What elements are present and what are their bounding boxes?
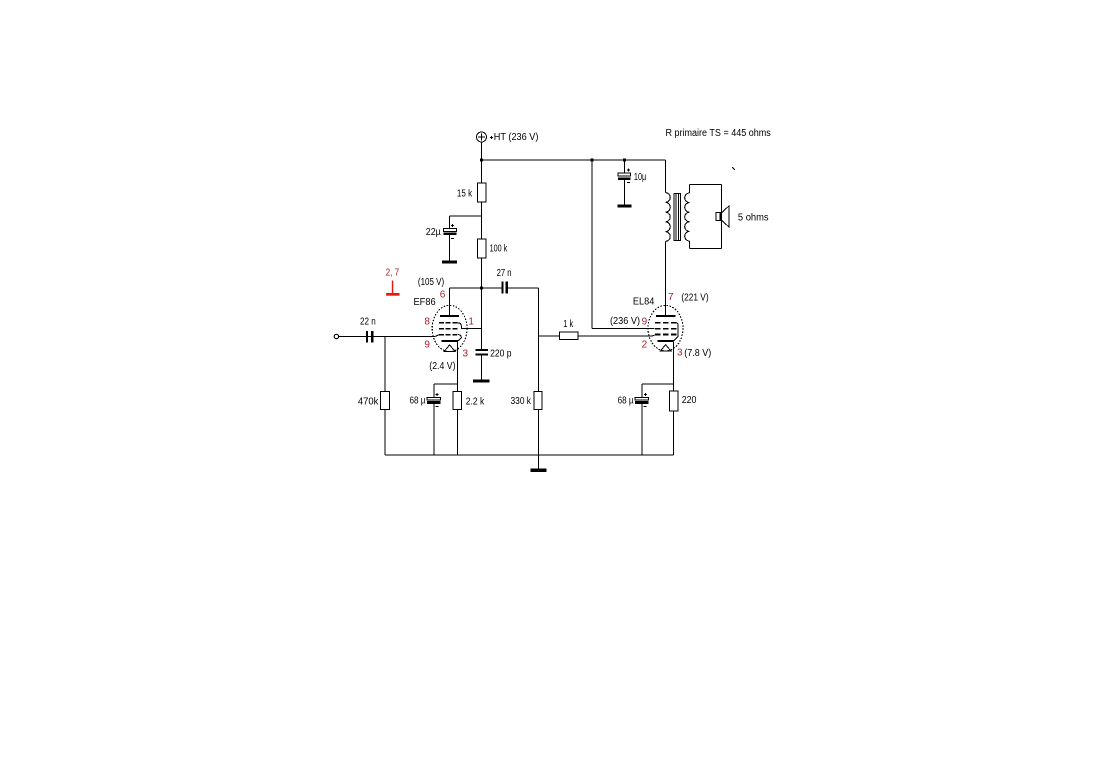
svg-text:(236 V): (236 V) [610, 316, 640, 327]
svg-text:3: 3 [463, 348, 469, 359]
svg-text:EL84: EL84 [633, 296, 655, 307]
svg-text:R primaire TS = 445 ohms: R primaire TS = 445 ohms [666, 128, 771, 139]
svg-text:9: 9 [424, 340, 430, 351]
svg-text:68 µ: 68 µ [410, 396, 426, 407]
svg-text:470k: 470k [358, 396, 379, 407]
svg-text:9: 9 [642, 317, 648, 328]
svg-text:330 k: 330 k [511, 396, 532, 407]
svg-text:1 k: 1 k [563, 319, 574, 330]
svg-text:220 p: 220 p [490, 349, 512, 360]
svg-text:100 k: 100 k [490, 244, 508, 255]
svg-text:HT (236 V): HT (236 V) [494, 132, 539, 143]
svg-text:5 ohms: 5 ohms [738, 213, 769, 224]
svg-text:27 n: 27 n [497, 268, 512, 279]
svg-text:68 µ: 68 µ [618, 396, 634, 407]
svg-text:2.2 k: 2.2 k [466, 396, 485, 407]
svg-text:15 k: 15 k [457, 189, 473, 200]
svg-text:22 n: 22 n [360, 317, 376, 328]
svg-text:8: 8 [424, 317, 430, 328]
svg-text:6: 6 [440, 289, 446, 300]
svg-text:2: 2 [642, 340, 648, 351]
svg-text:22µ: 22µ [426, 227, 441, 238]
svg-text:7: 7 [668, 292, 674, 303]
svg-text:1: 1 [468, 317, 474, 328]
svg-text:220: 220 [682, 395, 697, 406]
svg-text:3: 3 [677, 348, 683, 359]
svg-text:(7.8 V): (7.8 V) [684, 348, 711, 359]
svg-text:EF86: EF86 [414, 297, 437, 308]
svg-text:(105 V): (105 V) [418, 277, 444, 288]
svg-text:10µ: 10µ [634, 172, 647, 183]
svg-text:(2.4 V): (2.4 V) [429, 361, 455, 372]
svg-text:2, 7: 2, 7 [386, 268, 400, 279]
svg-text:(221 V): (221 V) [681, 293, 708, 304]
